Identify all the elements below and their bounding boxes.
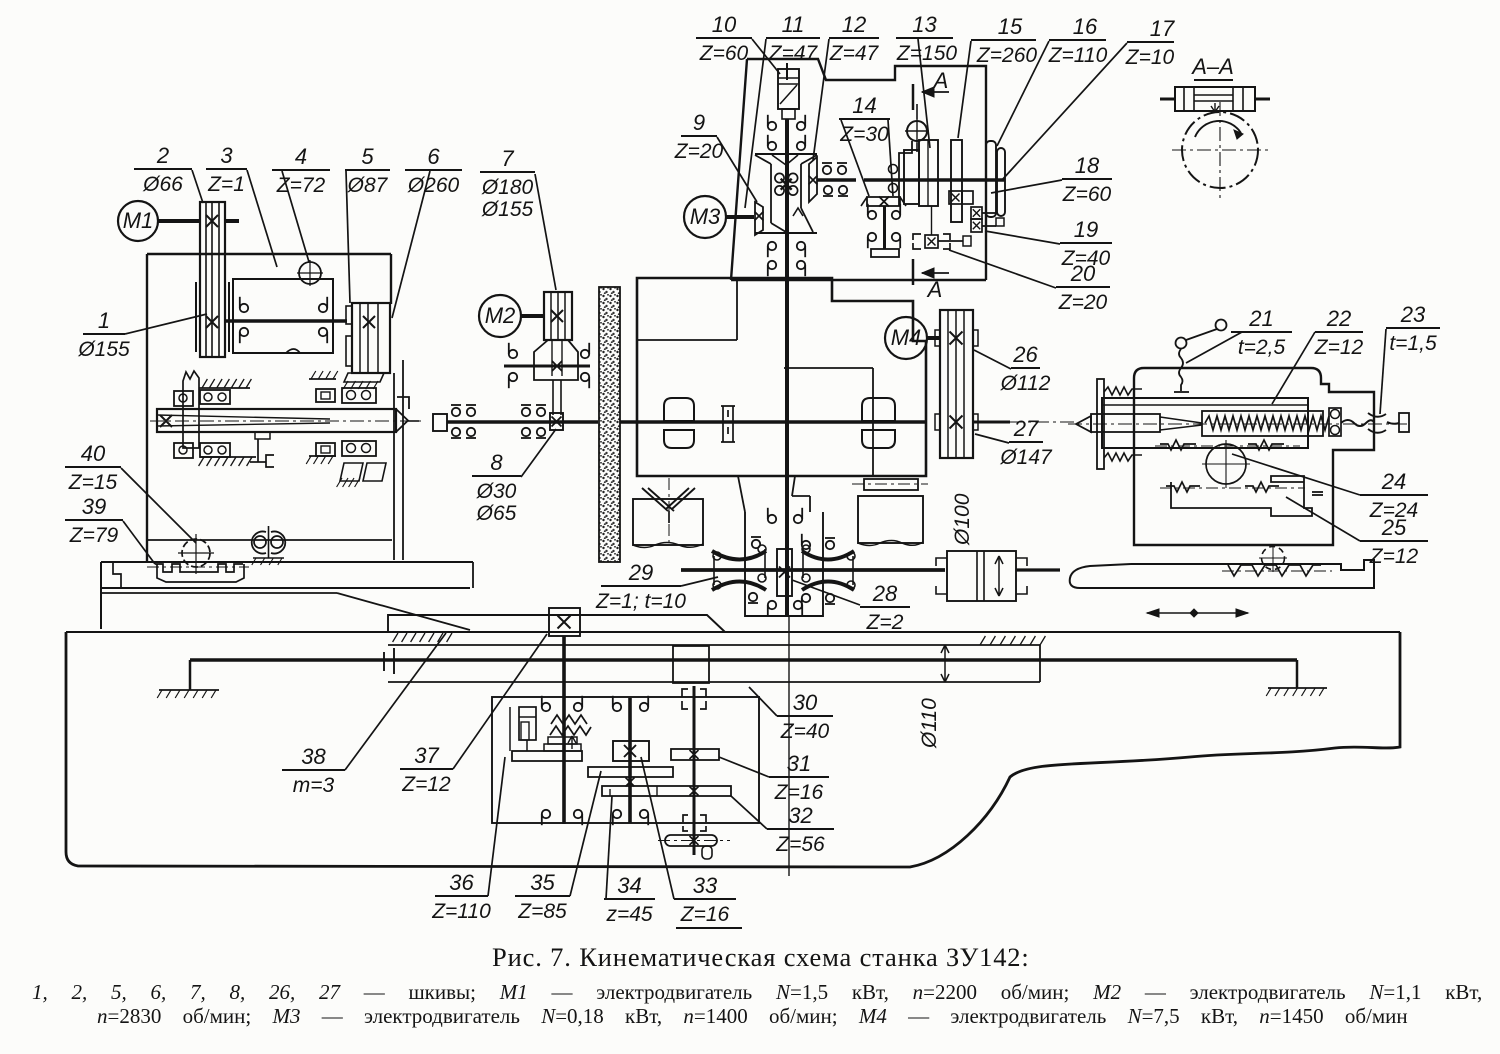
svg-text:12: 12 xyxy=(842,12,866,37)
label 35 (Z=85) xyxy=(515,771,601,923)
gear 12 sleeve bar xyxy=(904,150,919,204)
spindle upper-left support plate xyxy=(183,371,199,448)
svg-text:A: A xyxy=(926,277,943,302)
svg-text:Z=110: Z=110 xyxy=(1048,44,1108,67)
machine column body outline xyxy=(637,278,926,476)
M3 gearbox housing xyxy=(731,59,986,280)
gearbox housing xyxy=(492,697,759,823)
flexible screw to handwheel 23 xyxy=(1341,420,1374,426)
svg-text:9: 9 xyxy=(693,110,705,135)
left shaft support xyxy=(189,660,192,690)
label 1 (&#216;155) xyxy=(77,308,207,361)
svg-text:Z=2: Z=2 xyxy=(866,611,904,634)
svg-text:22: 22 xyxy=(1326,306,1351,331)
shaft 8 xyxy=(447,420,598,424)
CAPTION xyxy=(32,942,1482,1028)
svg-text:25: 25 xyxy=(1381,515,1407,540)
label 6 (&#216;260) xyxy=(392,144,462,318)
label 28 (Z=2) xyxy=(792,580,910,634)
pulley 7 bracket xyxy=(534,340,578,380)
section arrow A bottom xyxy=(912,259,915,285)
vertical shaft 2 xyxy=(628,698,632,823)
svg-text:23: 23 xyxy=(1400,302,1426,327)
left support V-bracket xyxy=(642,488,695,511)
label 10 (Z=60) xyxy=(696,12,780,74)
svg-text:Ø65: Ø65 xyxy=(476,502,517,525)
svg-text:40: 40 xyxy=(81,441,106,466)
spring chamber xyxy=(1202,411,1323,436)
clutch flag right xyxy=(809,157,817,202)
TAILSTOCK ASSEMBLY xyxy=(1068,320,1409,618)
pulley 2 (belt drive to pulley 1) xyxy=(200,202,225,357)
svg-text:30: 30 xyxy=(793,690,818,715)
svg-text:24: 24 xyxy=(1381,469,1406,494)
hydraulic cylinder on vertical shaft xyxy=(778,69,799,109)
svg-text:13: 13 xyxy=(912,12,937,37)
svg-text:15: 15 xyxy=(998,14,1023,39)
svg-text:27: 27 xyxy=(1013,416,1039,441)
spindle centerline xyxy=(150,420,425,422)
svg-text:Z=16: Z=16 xyxy=(680,903,730,926)
svg-text:Ø112: Ø112 xyxy=(1000,372,1051,395)
table section D-cutouts right pair xyxy=(862,398,895,421)
thrust bearing symbol xyxy=(383,652,385,671)
svg-text:Z=20: Z=20 xyxy=(1058,291,1108,314)
gear 24 circle xyxy=(1206,444,1246,484)
A-A pulley section xyxy=(1175,87,1255,111)
spindle body xyxy=(157,409,396,432)
svg-text:Z=16: Z=16 xyxy=(774,781,824,804)
svg-text:3: 3 xyxy=(220,143,233,168)
svg-text:Z=30: Z=30 xyxy=(839,123,889,146)
label 39 (Z=79) xyxy=(65,494,155,564)
svg-text:35: 35 xyxy=(530,870,555,895)
svg-text:A: A xyxy=(932,68,949,93)
coupling top xyxy=(682,689,688,709)
svg-text:32: 32 xyxy=(788,803,812,828)
bracket at gear 13 xyxy=(899,141,912,206)
tailstock base xyxy=(1070,560,1374,588)
svg-text:Z=1; t=10: Z=1; t=10 xyxy=(595,590,686,613)
svg-text:33: 33 xyxy=(693,873,718,898)
quill barrel xyxy=(1102,398,1308,448)
M3 GEARBOX + GEAR CLUSTER 13-20 xyxy=(684,59,1005,617)
svg-text:18: 18 xyxy=(1075,153,1100,178)
worm 17 (Z=10) xyxy=(997,148,1005,216)
faceplate xyxy=(1097,379,1104,469)
label 20 (Z=20) xyxy=(949,250,1110,314)
small key rect under spindle xyxy=(255,432,270,439)
svg-text:11: 11 xyxy=(782,12,805,37)
svg-text:М1: М1 xyxy=(123,208,154,233)
svg-text:Ø66: Ø66 xyxy=(142,173,183,196)
label 31 (Z=16) xyxy=(719,751,829,804)
WORM DRIVE 28/29 + COUPLING xyxy=(681,493,1060,876)
svg-text:Z=60: Z=60 xyxy=(699,42,749,65)
svg-text:5: 5 xyxy=(361,144,374,169)
table rack with teeth xyxy=(155,564,243,572)
svg-text:Ø87: Ø87 xyxy=(347,174,389,197)
label 21 (t=2,5) xyxy=(1186,306,1292,363)
coupling dia100 xyxy=(947,551,1016,601)
svg-text:38: 38 xyxy=(301,744,326,769)
vertical shaft 3 xyxy=(693,686,696,855)
svg-text:Ø260: Ø260 xyxy=(407,174,460,197)
coupling between tables xyxy=(721,406,735,442)
svg-text:Z=110: Z=110 xyxy=(431,900,491,923)
label 3 (Z=1) xyxy=(206,143,277,267)
svg-text:Z=72: Z=72 xyxy=(276,174,326,197)
label 34 (z=45) xyxy=(604,796,655,926)
label 24 (Z=24) xyxy=(1232,454,1428,522)
gear 37 X-box on rack xyxy=(549,608,580,636)
long feed shaft xyxy=(190,658,1297,662)
svg-text:t=2,5: t=2,5 xyxy=(1238,336,1286,359)
upper hatch left xyxy=(199,387,250,389)
vertical shaft from gear 37 xyxy=(562,636,566,824)
svg-text:2: 2 xyxy=(156,143,169,168)
svg-text:Z=150: Z=150 xyxy=(896,42,957,65)
pedestal under spindle xyxy=(257,439,259,462)
svg-text:z=45: z=45 xyxy=(605,903,652,926)
svg-text:31: 31 xyxy=(787,751,811,776)
label 30 (Z=40) xyxy=(749,687,833,743)
M2 DRIVE + SHAFT 8 + ABRASIVE BELT xyxy=(433,287,620,562)
label 32 (Z=56) xyxy=(731,796,834,856)
svg-text:4: 4 xyxy=(295,144,307,169)
svg-text:m=3: m=3 xyxy=(293,774,335,797)
shaft block xyxy=(673,646,709,683)
wheelhead box outline xyxy=(147,253,391,255)
gear 35 bar xyxy=(588,767,673,777)
lower bearings left xyxy=(174,443,193,458)
table slab under wheelhead xyxy=(101,561,473,563)
gear 25 circle xyxy=(1262,547,1285,570)
gear 33 X-box xyxy=(613,741,649,761)
svg-text:Z=47: Z=47 xyxy=(829,42,880,65)
svg-text:14: 14 xyxy=(852,93,876,118)
svg-text:М2: М2 xyxy=(485,303,516,328)
M4 DRIVE PULLEYS 26/27 xyxy=(885,310,1075,458)
svg-text:39: 39 xyxy=(82,494,106,519)
faceplate springs xyxy=(1104,387,1142,395)
label 27 (&#216;147) xyxy=(975,416,1053,469)
svg-text:10: 10 xyxy=(712,12,737,37)
bevel mesh balls xyxy=(775,173,784,182)
label 15 (Z=260) xyxy=(958,14,1037,138)
gear 34/32 bar xyxy=(602,786,731,796)
svg-text:1: 1 xyxy=(98,308,110,333)
label 19 (Z=40) xyxy=(985,217,1112,270)
bed top edge xyxy=(66,631,1400,633)
svg-text:t=1,5: t=1,5 xyxy=(1389,332,1437,355)
slide block 25 xyxy=(1171,476,1312,516)
label 13 (Z=150) xyxy=(896,12,957,148)
label 25 (Z=12) xyxy=(1286,497,1428,568)
label 12 (Z=47) xyxy=(813,12,880,160)
svg-text:Ø30: Ø30 xyxy=(476,480,517,503)
bearing symbols right of flag xyxy=(823,166,831,174)
vertical link to shaft 8 xyxy=(552,380,554,415)
bearing letter glyphs gearbox xyxy=(542,703,550,711)
motor M2 xyxy=(479,295,521,337)
shaft 8 bearings xyxy=(452,408,460,416)
label 33 (Z=16) xyxy=(641,757,742,928)
label 26 (&#216;112) xyxy=(974,342,1051,395)
upper right bearings xyxy=(309,378,336,380)
label 7 (&#216;180) xyxy=(480,146,556,290)
bevel gear 10 lower xyxy=(755,232,817,234)
pedestal slant xyxy=(100,592,337,594)
rack teeth row2 xyxy=(1166,482,1200,492)
worm left (29) xyxy=(712,551,766,560)
lever 21 xyxy=(1216,320,1227,331)
worm right xyxy=(802,551,854,560)
svg-text:Рис. 7. Кинематическая схема с: Рис. 7. Кинематическая схема станка ЗУ14… xyxy=(492,942,1030,972)
bevel gear 11 upper xyxy=(755,153,817,155)
svg-text:n=2830 об/мин; М3 — электродви: n=2830 об/мин; М3 — электродвигатель N=0… xyxy=(97,1004,1408,1028)
traverse arrow xyxy=(1147,612,1248,614)
svg-text:7: 7 xyxy=(501,146,514,171)
svg-text:1, 2, 5, 6, 7, 8, 26, 27 — шки: 1, 2, 5, 6, 7, 8, 26, 27 — шкивы; М1 — э… xyxy=(32,980,1482,1004)
label 23 (t=1,5) xyxy=(1380,302,1440,414)
svg-text:26: 26 xyxy=(1012,342,1038,367)
svg-text:Ø100: Ø100 xyxy=(951,493,974,546)
label 8 (&#216;30) xyxy=(472,429,556,525)
BED + FEED GEARBOX xyxy=(66,608,1400,867)
svg-text:Z=20: Z=20 xyxy=(674,140,724,163)
table section D-cutouts left pair xyxy=(664,398,694,421)
rack bar 38 xyxy=(388,615,725,632)
ball bearing right xyxy=(1329,408,1341,436)
bearing symbols on block xyxy=(240,304,248,312)
coupling 20 xyxy=(913,234,921,249)
hand circle above gear 13 xyxy=(907,121,927,141)
right wall of wheelhead xyxy=(393,373,395,560)
bearing boxes under 15 xyxy=(949,191,962,204)
label 14 (Z=30) xyxy=(839,93,893,196)
bearing glyph rows upper xyxy=(768,122,776,130)
svg-text:37: 37 xyxy=(414,743,439,768)
motor M4 xyxy=(885,317,927,359)
grinding belt (abrasive band) xyxy=(599,287,620,562)
tailstock body outline xyxy=(1134,368,1374,545)
label 40 (Z=15) xyxy=(65,441,196,543)
bearing glyph rows lower xyxy=(768,242,776,250)
gear 18/19 stack xyxy=(971,207,982,219)
belt tension pulleys xyxy=(254,536,266,548)
svg-text:19: 19 xyxy=(1074,217,1098,242)
svg-text:М4: М4 xyxy=(891,325,922,350)
label 18 (Z=60) xyxy=(991,153,1112,206)
adjuster nut 4 (circle) xyxy=(299,262,321,284)
horizontal shaft to gear cluster xyxy=(817,178,856,182)
svg-text:Z=15: Z=15 xyxy=(68,471,118,494)
pulley column 26/27 xyxy=(940,310,973,458)
gear 14 wedge xyxy=(867,197,900,206)
label 9 (Z=20) xyxy=(674,110,757,202)
svg-text:29: 29 xyxy=(628,560,653,585)
rotation arrow xyxy=(1195,121,1241,137)
worm shaft horizontal xyxy=(681,568,945,572)
motor M1 xyxy=(118,201,158,241)
svg-text:17: 17 xyxy=(1150,16,1175,41)
belt wedge under pulley 5 xyxy=(344,373,384,382)
label 17 (Z=10) xyxy=(1002,16,1175,180)
svg-text:М3: М3 xyxy=(690,204,721,229)
svg-text:Z=12: Z=12 xyxy=(1314,336,1364,359)
right support block xyxy=(864,479,918,490)
bracket bearings xyxy=(509,350,517,358)
svg-text:Z=40: Z=40 xyxy=(780,720,830,743)
pulley 5 column xyxy=(352,303,390,373)
svg-text:34: 34 xyxy=(617,873,641,898)
bracket shaft xyxy=(504,365,590,368)
svg-text:8: 8 xyxy=(490,450,503,475)
svg-text:28: 28 xyxy=(872,581,898,606)
clutch flag left (on M3 shaft) xyxy=(755,202,763,235)
worm wheel X-box 28 xyxy=(777,549,792,596)
svg-text:Ø110: Ø110 xyxy=(918,698,941,749)
bed outline xyxy=(66,632,1400,867)
hydraulic damper xyxy=(519,707,536,740)
funnel to worm housing xyxy=(738,476,745,512)
svg-text:Z=85: Z=85 xyxy=(517,900,567,923)
svg-text:Z=56: Z=56 xyxy=(775,833,825,856)
label 11 (Z=47) xyxy=(745,12,820,208)
main vertical shaft xyxy=(786,63,788,80)
CENTRAL MACHINE BODY xyxy=(620,278,928,548)
motor M3 xyxy=(684,196,726,238)
centerline tailstock xyxy=(1068,423,1408,425)
bearing square left upper xyxy=(174,391,193,406)
svg-text:Z=60: Z=60 xyxy=(1062,183,1112,206)
screw housing band xyxy=(388,644,1040,646)
X-box pulley on shaft 8 xyxy=(550,413,563,430)
main horizontal axis xyxy=(620,420,926,424)
svg-text:Z=1: Z=1 xyxy=(207,173,245,196)
shaft M2 xyxy=(521,314,544,318)
pulley 7 column xyxy=(544,292,572,340)
svg-text:Ø147: Ø147 xyxy=(999,446,1053,469)
clutch zigzags xyxy=(551,715,587,724)
gear 15 bar (Z=260) xyxy=(951,140,962,222)
label 22 (Z=12) xyxy=(1272,306,1364,404)
center cone xyxy=(1076,416,1091,432)
svg-text:Z=10: Z=10 xyxy=(1125,46,1175,69)
svg-text:Ø180: Ø180 xyxy=(481,176,534,199)
svg-text:Ø155: Ø155 xyxy=(481,198,534,221)
svg-text:Z=260: Z=260 xyxy=(976,44,1037,67)
gear 16 bar (Z=110) xyxy=(986,141,996,217)
shaft M1 xyxy=(158,219,200,223)
quill rack teeth row1 xyxy=(1160,440,1196,450)
section arrow A top xyxy=(912,84,915,110)
body inner partition lines xyxy=(637,339,737,341)
label 5 (&#216;87) xyxy=(345,144,390,303)
label 36 (Z=110) xyxy=(431,757,505,923)
svg-text:Ø155: Ø155 xyxy=(77,338,130,361)
gear 13 bar xyxy=(919,140,938,206)
svg-text:21: 21 xyxy=(1248,306,1273,331)
gear 36 bar xyxy=(512,751,582,761)
lower right bearings xyxy=(316,443,335,456)
label 38 (m=3) xyxy=(282,633,446,797)
right shaft end support xyxy=(1296,660,1299,688)
step bracket xyxy=(397,397,409,409)
svg-text:20: 20 xyxy=(1070,261,1096,286)
gear 40 circle on table xyxy=(182,539,210,567)
shaft through block xyxy=(225,319,347,323)
svg-text:A–A: A–A xyxy=(1190,54,1234,79)
gear 31 bar xyxy=(671,749,719,760)
LEFT WHEELHEAD ASSEMBLY xyxy=(100,201,473,630)
coupling bottom xyxy=(683,815,688,831)
svg-text:Z=79: Z=79 xyxy=(69,524,119,547)
gear 14 shaft xyxy=(883,206,886,249)
spring 22 xyxy=(1205,416,1329,430)
bearing block olo upper xyxy=(200,390,230,404)
svg-text:16: 16 xyxy=(1073,14,1098,39)
base rack teeth xyxy=(1228,565,1321,576)
svg-text:Z=12: Z=12 xyxy=(401,773,451,796)
bottom pulley 33 xyxy=(665,835,717,846)
pulley 1 flange xyxy=(195,282,197,352)
SECTION A-A VIEW xyxy=(1160,54,1270,198)
label 16 (Z=110) xyxy=(997,14,1108,146)
label 2 (&#216;66) xyxy=(134,143,203,203)
bearing glyphs around worm xyxy=(752,540,760,548)
dia110 dimension xyxy=(941,645,949,682)
svg-text:Z=12: Z=12 xyxy=(1369,545,1419,568)
svg-text:6: 6 xyxy=(427,144,440,169)
label 4 (Z=72) xyxy=(272,144,330,262)
belt wedges pulley 6 xyxy=(340,463,363,481)
worm housing xyxy=(745,512,823,616)
leader line below worm housing xyxy=(788,617,790,876)
motor mount block 4 xyxy=(233,279,333,353)
svg-text:Z=47: Z=47 xyxy=(768,42,819,65)
A-A wheel circle xyxy=(1182,112,1258,188)
label 29 (Z=1; t=10) xyxy=(595,560,718,613)
svg-text:36: 36 xyxy=(449,870,474,895)
label 37 (Z=12) xyxy=(400,634,547,796)
